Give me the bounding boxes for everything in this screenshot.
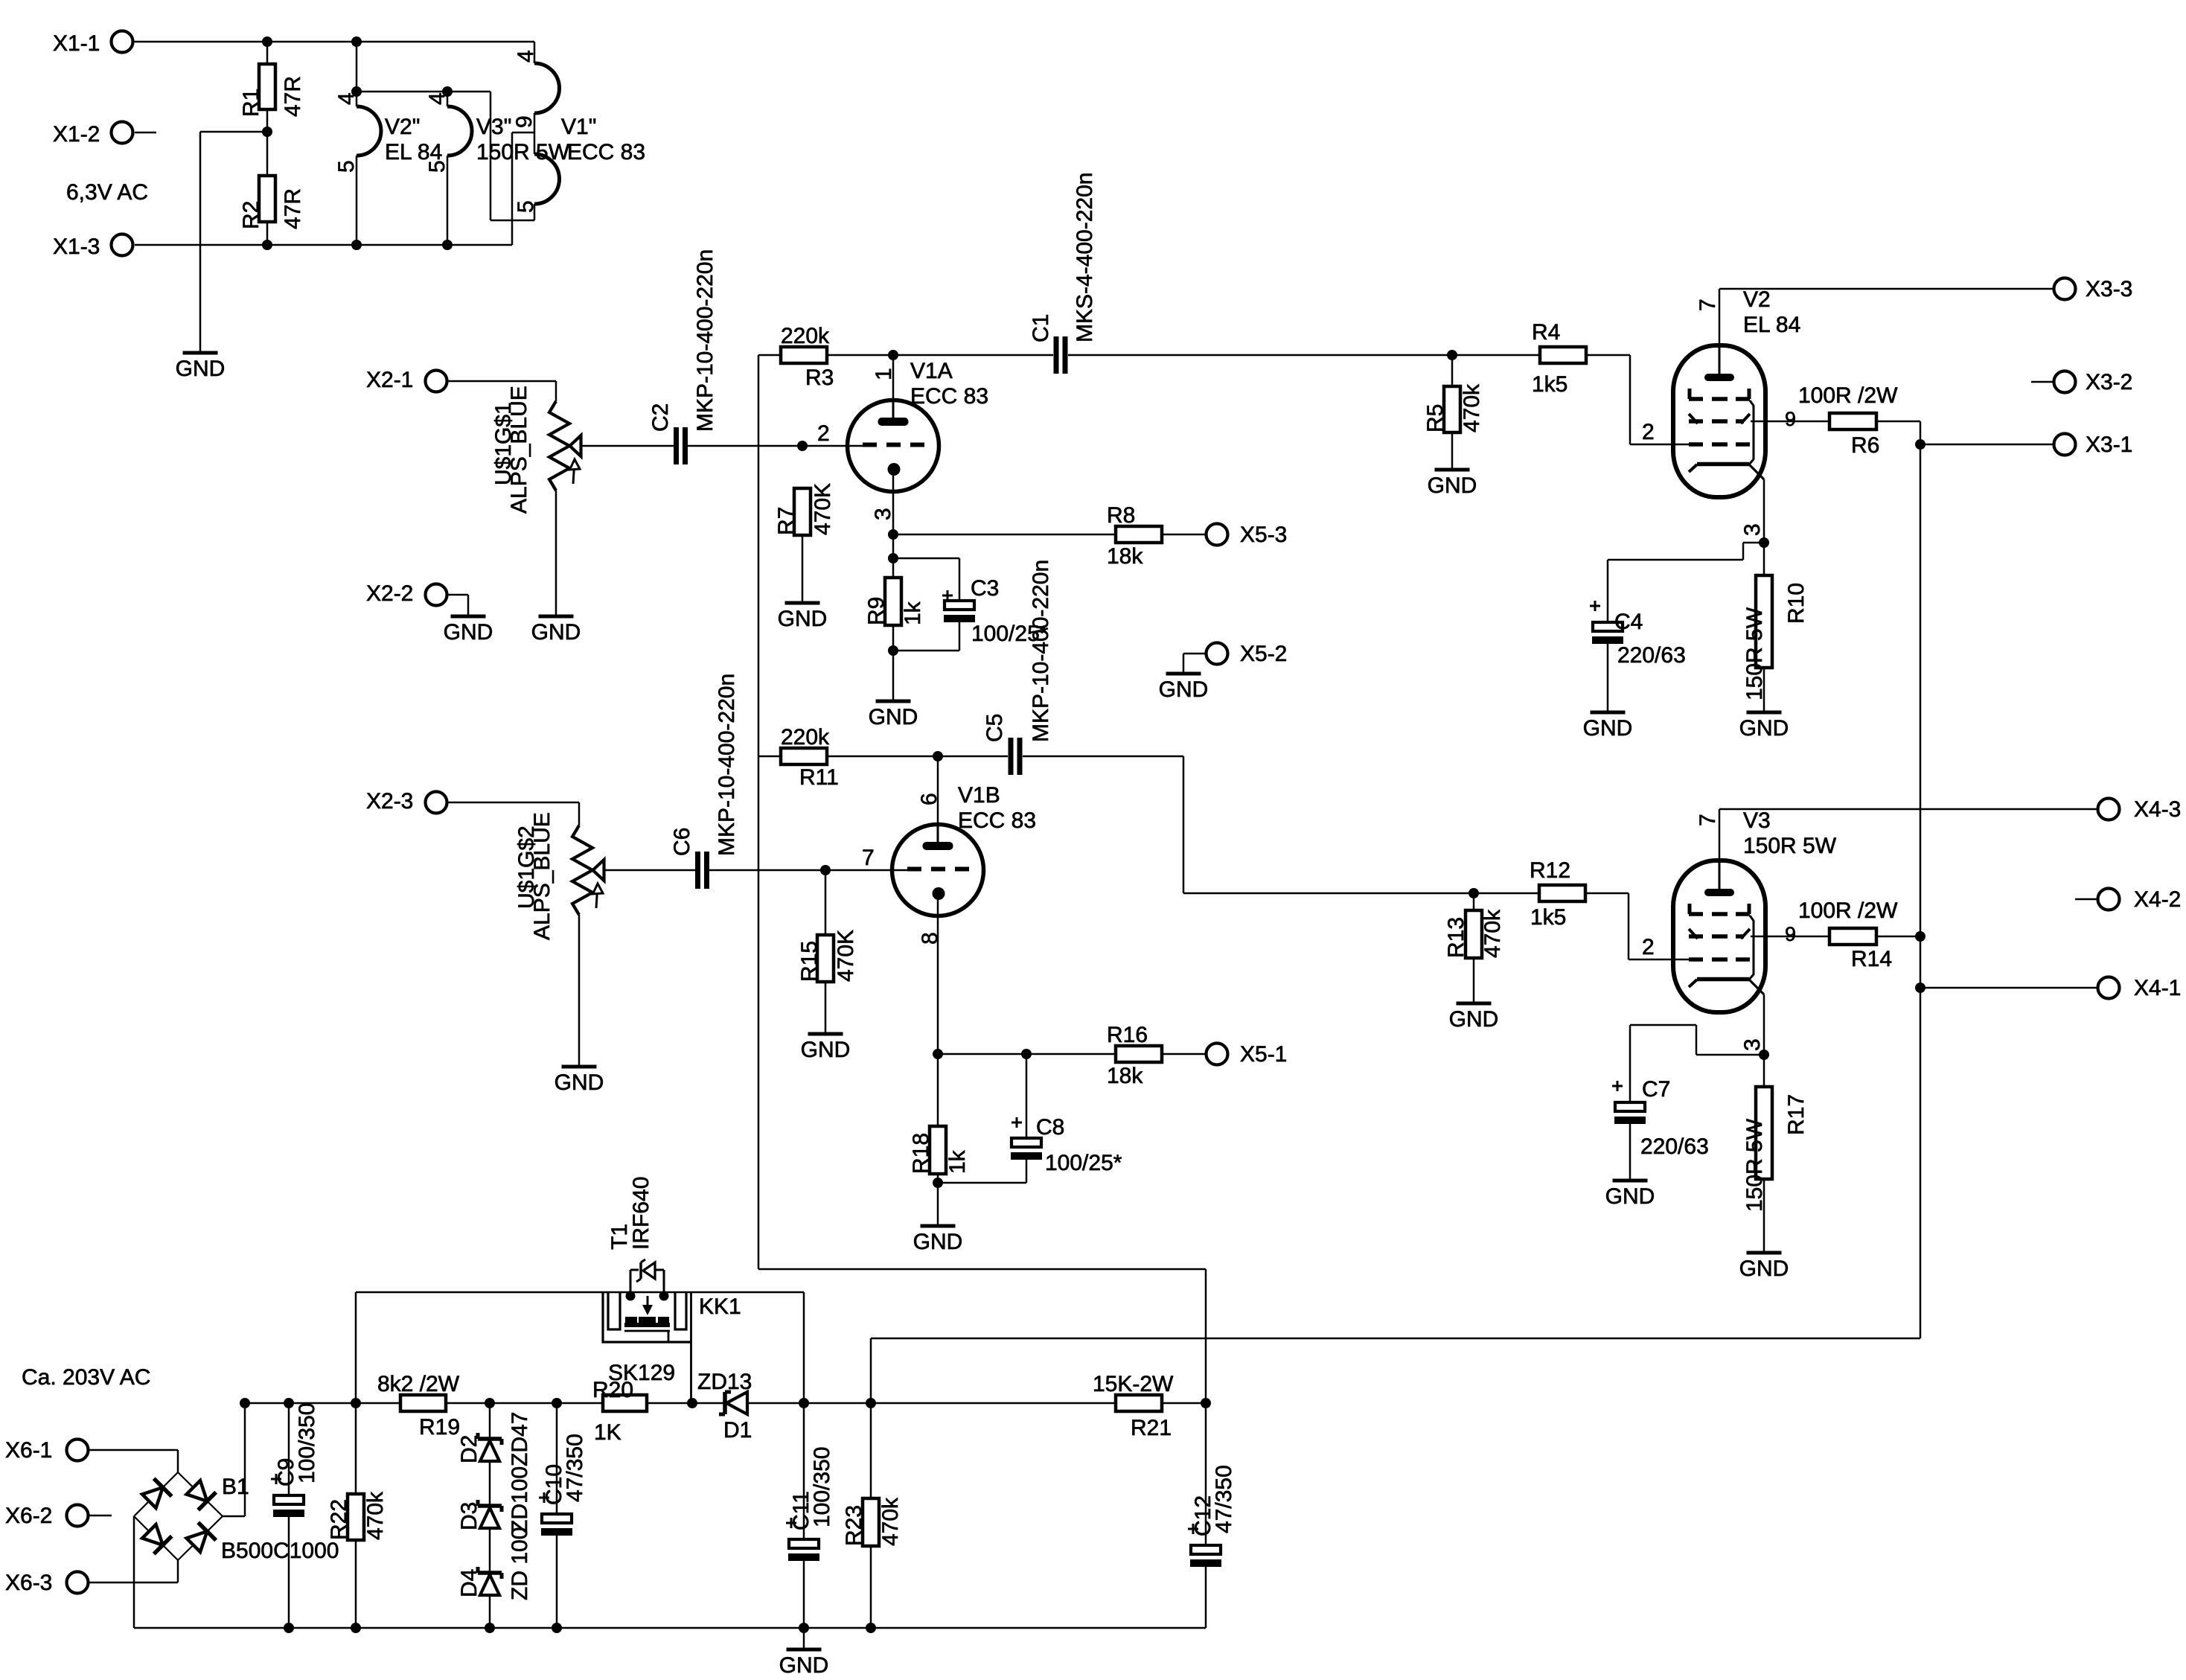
svg-text:C6: C6 bbox=[670, 828, 694, 856]
svg-text:R4: R4 bbox=[1532, 320, 1560, 345]
svg-text:GND: GND bbox=[913, 1230, 963, 1254]
svg-text:GND: GND bbox=[779, 1653, 829, 1678]
svg-text:GND: GND bbox=[531, 620, 581, 645]
svg-text:R5: R5 bbox=[1423, 404, 1448, 432]
svg-text:1K: 1K bbox=[594, 1420, 621, 1445]
svg-text:D1: D1 bbox=[723, 1418, 752, 1443]
svg-text:X2-3: X2-3 bbox=[366, 789, 413, 814]
svg-text:7: 7 bbox=[1696, 814, 1720, 826]
svg-text:6: 6 bbox=[917, 793, 942, 805]
svg-text:R1: R1 bbox=[239, 89, 263, 117]
svg-text:X6-2: X6-2 bbox=[5, 1504, 52, 1528]
svg-text:9: 9 bbox=[512, 115, 537, 128]
svg-text:ZD13: ZD13 bbox=[697, 1370, 752, 1394]
svg-text:EL 84: EL 84 bbox=[385, 140, 442, 165]
svg-text:18k: 18k bbox=[1107, 1064, 1143, 1088]
svg-text:R13: R13 bbox=[1444, 917, 1468, 958]
svg-text:47/350: 47/350 bbox=[563, 1434, 587, 1502]
svg-text:ALPS_BLUE: ALPS_BLUE bbox=[507, 386, 531, 514]
svg-text:GND: GND bbox=[801, 1038, 851, 1062]
svg-text:100/350: 100/350 bbox=[295, 1403, 319, 1483]
svg-text:C8: C8 bbox=[1036, 1115, 1064, 1140]
svg-text:2: 2 bbox=[817, 421, 830, 446]
svg-text:150R 5W: 150R 5W bbox=[1743, 834, 1837, 858]
svg-text:V2": V2" bbox=[385, 115, 420, 139]
svg-text:X2-1: X2-1 bbox=[366, 368, 413, 392]
svg-text:4: 4 bbox=[425, 92, 450, 105]
svg-text:1: 1 bbox=[872, 368, 896, 380]
svg-text:ECC 83: ECC 83 bbox=[567, 140, 645, 165]
svg-text:EL 84: EL 84 bbox=[1743, 313, 1800, 337]
svg-text:R20: R20 bbox=[592, 1378, 633, 1402]
svg-text:7: 7 bbox=[862, 846, 875, 870]
svg-text:C1: C1 bbox=[1029, 314, 1053, 342]
svg-text:ECC 83: ECC 83 bbox=[958, 808, 1036, 833]
svg-text:9: 9 bbox=[1785, 923, 1796, 945]
svg-text:V1": V1" bbox=[561, 115, 596, 139]
svg-text:R7: R7 bbox=[774, 507, 799, 535]
svg-text:R21: R21 bbox=[1131, 1416, 1172, 1440]
svg-text:R22: R22 bbox=[327, 1499, 351, 1540]
svg-text:Ca. 203V AC: Ca. 203V AC bbox=[22, 1365, 150, 1390]
svg-text:X1-2: X1-2 bbox=[53, 122, 100, 147]
svg-text:C4: C4 bbox=[1614, 610, 1643, 634]
svg-text:X5-3: X5-3 bbox=[1240, 523, 1287, 547]
svg-text:ECC 83: ECC 83 bbox=[910, 384, 988, 409]
svg-text:1k: 1k bbox=[901, 601, 925, 625]
svg-text:R12: R12 bbox=[1530, 858, 1570, 883]
svg-text:470k: 470k bbox=[878, 1497, 903, 1546]
svg-text:X3-3: X3-3 bbox=[2086, 277, 2132, 301]
svg-text:3: 3 bbox=[871, 508, 895, 520]
svg-text:220/63: 220/63 bbox=[1617, 643, 1686, 668]
svg-text:ALPS_BLUE: ALPS_BLUE bbox=[530, 812, 555, 940]
svg-text:8k2 /2W: 8k2 /2W bbox=[377, 1372, 460, 1396]
svg-text:1k5: 1k5 bbox=[1530, 905, 1566, 930]
svg-text:R9: R9 bbox=[864, 597, 889, 625]
svg-text:R19: R19 bbox=[419, 1415, 460, 1440]
svg-text:9: 9 bbox=[1785, 408, 1796, 430]
svg-text:C2: C2 bbox=[648, 403, 673, 432]
svg-text:R11: R11 bbox=[799, 765, 839, 790]
svg-text:X2-2: X2-2 bbox=[366, 581, 413, 606]
svg-text:D4: D4 bbox=[457, 1569, 482, 1597]
svg-text:X5-1: X5-1 bbox=[1240, 1042, 1287, 1067]
svg-text:GND: GND bbox=[176, 357, 226, 381]
svg-text:V1B: V1B bbox=[958, 783, 1000, 808]
svg-text:MKP-10-400-220n: MKP-10-400-220n bbox=[693, 249, 718, 432]
svg-text:7: 7 bbox=[1696, 298, 1720, 311]
svg-text:15K-2W: 15K-2W bbox=[1093, 1372, 1174, 1396]
svg-text:C3: C3 bbox=[971, 576, 999, 601]
svg-text:100R /2W: 100R /2W bbox=[1798, 383, 1898, 408]
svg-text:GND: GND bbox=[869, 705, 918, 729]
svg-text:MKS-4-400-220n: MKS-4-400-220n bbox=[1073, 173, 1097, 342]
svg-text:470K: 470K bbox=[811, 483, 835, 535]
svg-text:2: 2 bbox=[1642, 935, 1655, 959]
svg-text:1k: 1k bbox=[945, 1149, 970, 1174]
svg-text:R16: R16 bbox=[1107, 1023, 1148, 1047]
svg-text:470K: 470K bbox=[834, 930, 858, 982]
svg-text:100/350: 100/350 bbox=[810, 1447, 834, 1527]
svg-text:GND: GND bbox=[444, 620, 493, 645]
svg-text:V3": V3" bbox=[476, 115, 511, 139]
svg-text:47R: 47R bbox=[281, 188, 305, 229]
svg-text:X3-2: X3-2 bbox=[2086, 370, 2132, 395]
svg-text:R2: R2 bbox=[239, 201, 263, 229]
svg-text:V3: V3 bbox=[1743, 808, 1771, 833]
svg-text:D3: D3 bbox=[457, 1502, 482, 1530]
svg-text:R6: R6 bbox=[1851, 433, 1879, 458]
svg-text:R10: R10 bbox=[1784, 583, 1809, 624]
svg-text:5: 5 bbox=[334, 160, 359, 173]
svg-text:2: 2 bbox=[1642, 420, 1655, 444]
svg-text:IRF640: IRF640 bbox=[629, 1177, 653, 1250]
svg-text:GND: GND bbox=[1739, 1256, 1789, 1281]
svg-text:1k5: 1k5 bbox=[1532, 372, 1567, 397]
svg-text:X6-1: X6-1 bbox=[5, 1438, 52, 1463]
svg-text:R23: R23 bbox=[842, 1505, 866, 1546]
svg-text:X5-2: X5-2 bbox=[1240, 642, 1287, 666]
svg-text:MKP-10-400-220n: MKP-10-400-220n bbox=[715, 674, 739, 856]
svg-text:GND: GND bbox=[1605, 1184, 1655, 1209]
svg-text:6,3V AC: 6,3V AC bbox=[66, 180, 148, 205]
svg-text:C5: C5 bbox=[982, 714, 1007, 742]
svg-text:470k: 470k bbox=[363, 1491, 388, 1540]
svg-text:V2: V2 bbox=[1743, 287, 1771, 312]
svg-text:X1-3: X1-3 bbox=[53, 234, 100, 259]
svg-text:5: 5 bbox=[514, 200, 538, 213]
svg-text:R17: R17 bbox=[1784, 1094, 1809, 1135]
svg-text:100/25*: 100/25* bbox=[1045, 1151, 1122, 1175]
svg-text:R3: R3 bbox=[805, 365, 834, 390]
svg-text:GND: GND bbox=[1449, 1007, 1499, 1032]
svg-text:KK1: KK1 bbox=[699, 1294, 741, 1319]
svg-text:X4-3: X4-3 bbox=[2134, 797, 2181, 822]
svg-text:47R: 47R bbox=[281, 76, 305, 117]
svg-text:R8: R8 bbox=[1107, 503, 1135, 528]
svg-text:GND: GND bbox=[1583, 716, 1633, 741]
svg-text:100R /2W: 100R /2W bbox=[1798, 898, 1898, 923]
svg-text:GND: GND bbox=[1739, 716, 1789, 741]
svg-text:470k: 470k bbox=[1460, 383, 1484, 432]
svg-text:GND: GND bbox=[555, 1070, 604, 1095]
svg-text:3: 3 bbox=[1740, 523, 1765, 536]
svg-text:V1A: V1A bbox=[910, 359, 953, 383]
svg-text:4: 4 bbox=[514, 50, 538, 63]
svg-text:18k: 18k bbox=[1107, 544, 1143, 569]
svg-text:D2: D2 bbox=[457, 1435, 482, 1463]
svg-text:X3-1: X3-1 bbox=[2086, 432, 2132, 457]
svg-text:X4-1: X4-1 bbox=[2134, 976, 2181, 1000]
svg-text:R18: R18 bbox=[909, 1133, 933, 1174]
svg-text:220/63: 220/63 bbox=[1640, 1134, 1709, 1159]
svg-text:GND: GND bbox=[1159, 677, 1209, 702]
svg-text:R14: R14 bbox=[1851, 947, 1892, 971]
svg-text:220k: 220k bbox=[781, 324, 830, 348]
svg-text:ZD100: ZD100 bbox=[508, 1466, 532, 1533]
svg-text:GND: GND bbox=[1428, 473, 1477, 498]
svg-text:220k: 220k bbox=[781, 725, 830, 750]
svg-text:150R 5W: 150R 5W bbox=[476, 140, 570, 165]
svg-text:R15: R15 bbox=[797, 941, 822, 982]
svg-text:ZD47: ZD47 bbox=[508, 1412, 532, 1466]
svg-text:X1-1: X1-1 bbox=[53, 31, 100, 56]
svg-text:X4-2: X4-2 bbox=[2134, 887, 2181, 912]
svg-text:C7: C7 bbox=[1642, 1077, 1670, 1102]
svg-text:GND: GND bbox=[778, 607, 828, 631]
svg-text:X6-3: X6-3 bbox=[5, 1571, 52, 1595]
svg-text:3: 3 bbox=[1740, 1038, 1765, 1051]
svg-text:470k: 470k bbox=[1480, 909, 1505, 958]
svg-text:B500C1000: B500C1000 bbox=[221, 1539, 339, 1563]
svg-text:47/350: 47/350 bbox=[1212, 1465, 1236, 1533]
svg-text:4: 4 bbox=[334, 92, 359, 105]
svg-text:MKP-10-400-220n: MKP-10-400-220n bbox=[1029, 560, 1053, 742]
svg-text:ZD 100: ZD 100 bbox=[508, 1527, 532, 1600]
